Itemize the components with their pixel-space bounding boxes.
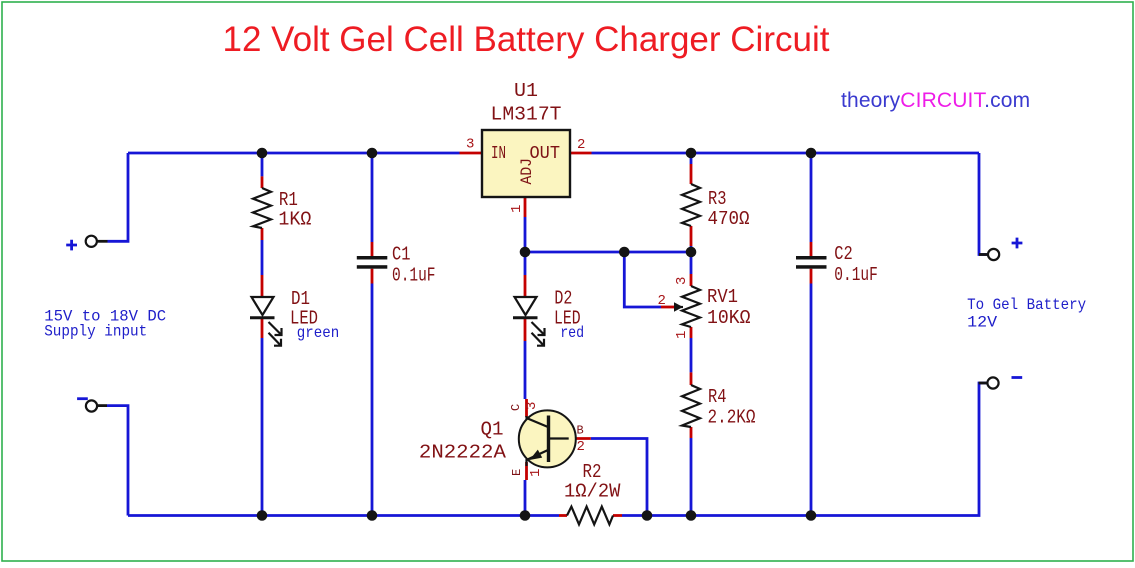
- wire bottom rail: [128, 514, 559, 517]
- capacitor C1: [357, 256, 388, 269]
- diode D2 LED red: [513, 297, 545, 346]
- terminal input plus: [86, 236, 97, 247]
- svg-text:D2: D2: [554, 288, 572, 310]
- pin stub U1 ADJ: [524, 197, 527, 217]
- wire ADJ to node: [524, 217, 527, 252]
- wire C2 top: [810, 153, 813, 242]
- wire node to D2: [524, 252, 527, 275]
- wire right plus leg: [979, 153, 988, 255]
- svg-text:2N2222A: 2N2222A: [419, 442, 507, 464]
- svg-text:1: 1: [674, 331, 690, 339]
- pin stub RV1 bottom: [690, 327, 693, 338]
- resistor R2: [567, 507, 613, 525]
- pin stub RV1 top: [690, 274, 693, 286]
- pin stub Q1 emitter: [525, 462, 528, 480]
- terminal output plus: [988, 249, 999, 260]
- svg-text:470Ω: 470Ω: [708, 208, 750, 230]
- wire R1 to D1: [261, 240, 264, 275]
- svg-text:IN: IN: [491, 144, 506, 164]
- wire R4 bottom: [690, 438, 693, 516]
- transistor Q1 body: [519, 410, 576, 467]
- wire top rail left: [128, 152, 460, 155]
- polarity minus input: [77, 397, 88, 400]
- svg-text:red: red: [560, 324, 584, 342]
- pin stub C1 top: [371, 242, 374, 256]
- svg-text:3: 3: [674, 277, 690, 285]
- pin stub R4 bottom: [690, 427, 693, 438]
- wire Q1 base to R2 node: [591, 439, 647, 516]
- svg-text:C: C: [509, 404, 523, 411]
- svg-text:10KΩ: 10KΩ: [707, 307, 751, 329]
- pin stub R2 right: [613, 514, 622, 517]
- node junction top R3: [686, 148, 697, 159]
- svg-text:C1: C1: [392, 244, 411, 266]
- svg-text:R4: R4: [708, 386, 727, 408]
- svg-text:2: 2: [577, 137, 585, 153]
- pin stub R3 top: [690, 164, 693, 184]
- wire left plus leg: [108, 153, 129, 241]
- svg-text:1Ω/2W: 1Ω/2W: [564, 480, 621, 502]
- wire bottom rail right: [622, 383, 987, 516]
- pin stub D2 bottom: [524, 319, 527, 341]
- potentiometer RV1 wiper arrow: [674, 306, 683, 308]
- pin stub R3 bottom: [690, 226, 693, 246]
- node junction bottom R1: [257, 510, 268, 521]
- svg-text:Q1: Q1: [481, 419, 504, 441]
- wire wiper feed: [624, 252, 661, 307]
- pin stub D2 top: [524, 275, 527, 296]
- pin stub D1 bottom: [261, 319, 264, 338]
- pin stub D1 top: [261, 275, 264, 296]
- terminal output minus: [987, 377, 998, 388]
- wire C2 bottom: [810, 284, 813, 516]
- node junction top C1: [367, 148, 378, 159]
- wire C1 column top: [371, 153, 374, 242]
- pin stub R1 bottom: [261, 228, 264, 240]
- pin stub R4 top: [690, 372, 693, 385]
- pin stub U1 OUT: [570, 152, 592, 155]
- resistor R1: [253, 188, 271, 228]
- node junction adj R3: [686, 247, 697, 258]
- svg-text:1: 1: [528, 469, 544, 477]
- svg-text:12V: 12V: [967, 313, 997, 331]
- svg-text:ADJ: ADJ: [518, 158, 536, 185]
- pin stub R2 left: [559, 514, 567, 517]
- svg-text:B: B: [577, 424, 584, 438]
- svg-text:2: 2: [577, 439, 585, 455]
- node junction top R1: [257, 148, 268, 159]
- wire D1 to bottom: [261, 338, 264, 516]
- svg-text:0.1uF: 0.1uF: [392, 264, 436, 286]
- wire R3 top: [690, 153, 693, 164]
- pin stub C1 bottom: [371, 269, 374, 284]
- IC U1 LM317T body: [482, 130, 570, 197]
- polarity plus output: [1012, 238, 1023, 249]
- pin stub C2 top: [810, 242, 813, 256]
- svg-text:3: 3: [466, 137, 474, 153]
- node junction top C2: [806, 148, 817, 159]
- pin stub Q1 collector: [525, 399, 528, 417]
- wire RV1 top blue: [690, 252, 693, 274]
- svg-text:3: 3: [524, 402, 540, 410]
- pin stub U1 IN: [460, 152, 483, 155]
- resistor R4: [682, 385, 700, 427]
- polarity plus input: [66, 240, 77, 251]
- capacitor C2: [796, 256, 827, 269]
- svg-text:0.1uF: 0.1uF: [834, 264, 878, 286]
- node junction bottom R4: [686, 510, 697, 521]
- svg-text:green: green: [297, 324, 340, 342]
- node junction bottom C2: [806, 510, 817, 521]
- pin stub R1 top: [261, 176, 264, 188]
- wire D2 to Q1 collector: [524, 341, 527, 399]
- svg-text:1: 1: [509, 205, 525, 213]
- wire adj rail: [525, 251, 691, 254]
- wire C1 bottom: [371, 284, 374, 516]
- pin stub RV1 wiper: [661, 306, 674, 309]
- potentiometer RV1 body: [682, 286, 700, 327]
- svg-text:theoryCIRCUIT.com: theoryCIRCUIT.com: [841, 89, 1030, 112]
- wire left minus leg: [107, 406, 128, 516]
- resistor R3: [682, 184, 700, 226]
- wire RV1 to R4: [690, 338, 693, 372]
- node junction adj wiper: [619, 247, 630, 258]
- svg-text:R3: R3: [708, 188, 727, 210]
- terminal input minus: [86, 400, 97, 411]
- node junction bottom Q1: [520, 510, 531, 521]
- svg-text:E: E: [510, 469, 524, 476]
- diode D1 LED green: [250, 297, 282, 346]
- svg-text:1KΩ: 1KΩ: [278, 208, 311, 230]
- wire R1 column top: [261, 153, 264, 176]
- wire top rail right: [592, 152, 980, 155]
- pin stub Q1 base: [569, 437, 591, 440]
- svg-text:LM317T: LM317T: [491, 104, 562, 126]
- svg-text:12 Volt Gel Cell Battery Charg: 12 Volt Gel Cell Battery Charger Circuit: [223, 20, 830, 59]
- node junction bottom C1: [367, 510, 378, 521]
- svg-text:RV1: RV1: [707, 286, 738, 308]
- wire Q1 emitter to bottom: [524, 480, 527, 516]
- svg-text:2: 2: [658, 293, 666, 309]
- svg-text:To Gel Battery: To Gel Battery: [967, 296, 1086, 314]
- svg-text:C2: C2: [834, 243, 853, 265]
- node junction bottom R2: [642, 510, 653, 521]
- polarity minus output: [1012, 376, 1023, 379]
- svg-text:2.2KΩ: 2.2KΩ: [708, 407, 756, 429]
- pin stub C2 bottom: [810, 269, 813, 284]
- node junction adj D2: [520, 247, 531, 258]
- svg-text:Supply input: Supply input: [44, 323, 147, 341]
- wire R3 bottom to node: [690, 246, 693, 252]
- svg-text:U1: U1: [514, 80, 538, 102]
